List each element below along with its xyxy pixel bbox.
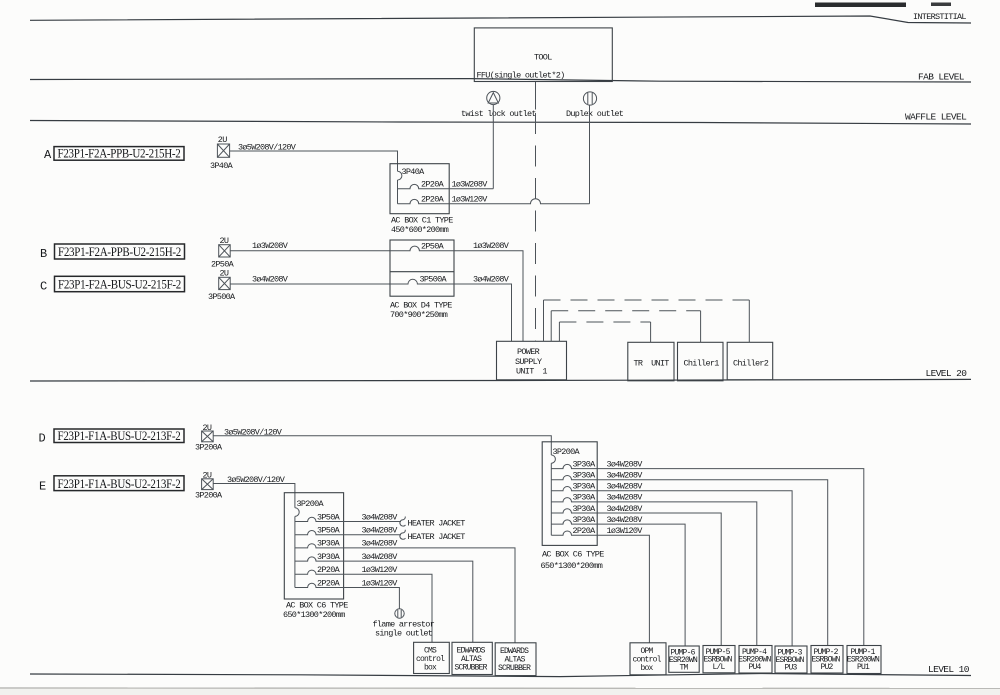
svg-text:SUPPLY: SUPPLY	[515, 357, 542, 367]
PUMP-6 ESR20WN TM	[669, 646, 699, 672]
svg-text:3P40A: 3P40A	[210, 161, 234, 171]
breaker 3P30A row2	[551, 475, 597, 479]
svg-text:3ø4W208V: 3ø4W208V	[607, 459, 644, 469]
svg-text:PU1: PU1	[857, 663, 870, 672]
svg-text:E: E	[39, 480, 46, 494]
svg-text:SCRUBBER: SCRUBBER	[498, 664, 531, 673]
wire 3ø4W208V to PUMP-5	[597, 513, 721, 646]
wire 3ø4W208V to heater jacket 1	[344, 521, 401, 523]
wire feeder C to AC BOX D4	[230, 283, 390, 285]
breaker 2P50A (AC box D4)	[390, 246, 454, 251]
svg-text:2P20A: 2P20A	[573, 526, 597, 536]
svg-text:3ø4W208V: 3ø4W208V	[607, 482, 644, 492]
svg-text:PU2: PU2	[821, 663, 834, 672]
wire feeder B to AC BOX D4	[230, 250, 390, 252]
svg-text:POWER: POWER	[517, 347, 540, 357]
svg-text:2P20A: 2P20A	[421, 179, 445, 189]
breaker 2P20A row7	[551, 531, 597, 535]
svg-text:SCRUBBER: SCRUBBER	[455, 663, 488, 672]
wire twist-lock outlet drop to AC box C1 row1	[492, 105, 494, 189]
svg-text:TR UNIT: TR UNIT	[634, 358, 670, 368]
svg-text:3P40A: 3P40A	[402, 167, 426, 177]
svg-text:3ø4W208V: 3ø4W208V	[252, 274, 289, 284]
level line INTERSTITIAL	[30, 16, 971, 23]
Duplex outlet symbol	[583, 92, 596, 105]
breaker 2P20A row5	[295, 570, 344, 574]
svg-text:TOOL: TOOL	[534, 53, 552, 63]
wire TOOL feeder dashed drop to POWER SUPPLY UNIT 1	[535, 113, 537, 341]
svg-text:WAFFLE LEVEL: WAFFLE LEVEL	[905, 111, 967, 122]
feeder tag B	[55, 244, 185, 259]
breaker 3P500A (feeder C disconnect)	[219, 277, 231, 289]
svg-text:LEVEL 20: LEVEL 20	[926, 368, 968, 379]
twist lock outlet symbol	[487, 91, 500, 104]
svg-text:3P30A: 3P30A	[573, 471, 597, 481]
wire PSU to TR UNIT (dashed)	[558, 322, 560, 341]
connector squiggle heater jacket 1	[400, 517, 406, 527]
svg-text:TM: TM	[680, 664, 689, 673]
svg-text:3ø4W208V: 3ø4W208V	[607, 504, 644, 514]
wire 3ø4W208V to EDWARDS scrubber 1	[344, 561, 473, 642]
PUMP-4 ESR200WN PU4	[739, 646, 772, 674]
AC BOX C6 right	[542, 442, 597, 546]
svg-text:2P20A: 2P20A	[421, 194, 445, 204]
svg-text:3ø4W208V: 3ø4W208V	[607, 493, 644, 503]
wire 1ø3W120V to flame arrestor outlet	[344, 588, 400, 609]
svg-text:1ø3W208V: 1ø3W208V	[252, 241, 289, 251]
svg-text:3P30A: 3P30A	[573, 504, 597, 514]
level line FAB LEVEL	[30, 79, 971, 82]
svg-text:650*1300*200mm: 650*1300*200mm	[283, 610, 345, 620]
svg-text:700*900*250mm: 700*900*250mm	[390, 310, 448, 320]
breaker 3P200A (feeder D disconnect)	[202, 431, 214, 442]
svg-text:1ø3W208V: 1ø3W208V	[473, 241, 510, 251]
svg-text:box: box	[641, 664, 654, 673]
PUMP-3 ESRBOWN PU3	[775, 646, 807, 673]
svg-text:3ø4W208V: 3ø4W208V	[362, 552, 399, 562]
bus AC box C1	[397, 180, 399, 204]
svg-text:Duplex outlet: Duplex outlet	[566, 109, 624, 119]
svg-text:C: C	[40, 280, 47, 294]
feeder tag E	[54, 476, 184, 491]
svg-text:FAB LEVEL: FAB LEVEL	[918, 72, 965, 83]
svg-text:box: box	[424, 663, 437, 672]
svg-text:1ø3W120V: 1ø3W120V	[607, 526, 644, 536]
svg-text:3P30A: 3P30A	[317, 552, 341, 562]
svg-text:single outlet: single outlet	[375, 629, 433, 639]
svg-text:2P20A: 2P20A	[317, 578, 341, 588]
svg-text:LEVEL 10: LEVEL 10	[928, 664, 970, 675]
bus left C6	[294, 516, 296, 587]
TOOL box	[474, 28, 612, 82]
breaker 2P50A (feeder B disconnect)	[219, 245, 231, 257]
svg-text:1ø3W120V: 1ø3W120V	[452, 194, 489, 204]
svg-text:2U: 2U	[203, 423, 212, 433]
svg-text:2U: 2U	[220, 236, 229, 246]
svg-text:F23P1-F2A-PPB-U2-215H-2: F23P1-F2A-PPB-U2-215H-2	[58, 146, 181, 161]
wire 1ø3W120V to Duplex outlet (hop over dashed feeder)	[449, 199, 589, 204]
svg-text:1ø3W120V: 1ø3W120V	[362, 565, 399, 575]
wire feeder A to AC BOX C1	[230, 151, 398, 171]
svg-text:3P200A: 3P200A	[195, 491, 223, 501]
breaker 3P30A row4	[295, 557, 344, 561]
svg-text:3ø4W208V: 3ø4W208V	[362, 539, 399, 549]
svg-text:L/L: L/L	[713, 663, 726, 672]
svg-text:HEATER JACKET: HEATER JACKET	[408, 519, 466, 529]
svg-text:650*1300*200mm: 650*1300*200mm	[541, 561, 603, 571]
feeder tag A	[54, 147, 184, 161]
svg-text:2U: 2U	[218, 135, 227, 145]
svg-text:AC BOX C6 TYPE: AC BOX C6 TYPE	[286, 601, 348, 611]
CMS control box	[414, 642, 450, 673]
breaker 3P30A row3	[295, 544, 344, 548]
scan edge faint line bottom	[0, 687, 1000, 690]
level line LEVEL 20	[30, 379, 971, 381]
breaker 3P200A main (right C6)	[551, 455, 555, 463]
svg-text:3P30A: 3P30A	[317, 539, 341, 549]
svg-text:3ø4W208V: 3ø4W208V	[473, 274, 510, 284]
svg-text:450*600*200mm: 450*600*200mm	[391, 225, 449, 235]
wire 3ø4W208V to PUMP-6	[597, 524, 685, 646]
svg-text:PU3: PU3	[785, 664, 798, 673]
Chiller2	[727, 342, 773, 380]
svg-text:AC BOX D4 TYPE: AC BOX D4 TYPE	[390, 301, 452, 311]
OPM control box	[630, 643, 666, 675]
svg-text:3ø4W208V: 3ø4W208V	[362, 512, 399, 522]
wire 3ø4W208V to PSU	[454, 284, 512, 341]
wire 3ø4W208V to PUMP-4	[597, 502, 757, 646]
breaker 3P50A row1	[295, 517, 344, 521]
svg-text:3P30A: 3P30A	[573, 482, 597, 492]
svg-text:3P200A: 3P200A	[195, 443, 223, 453]
svg-text:F23P1-F2A-PPB-U2-215H-2: F23P1-F2A-PPB-U2-215H-2	[58, 244, 181, 259]
svg-text:3P50A: 3P50A	[317, 512, 341, 522]
wire 3ø4W208V to PUMP-1	[597, 469, 864, 646]
svg-text:3P30A: 3P30A	[573, 515, 597, 525]
Chiller1	[678, 342, 724, 381]
POWER SUPPLY UNIT 1	[497, 341, 567, 380]
svg-text:3ø4W208V: 3ø4W208V	[362, 526, 399, 536]
PUMP-5 ESRBOWN L/L	[703, 646, 735, 673]
wire 1ø3W208V to PSU	[454, 251, 523, 341]
PUMP-1 ESR200WN PU1	[847, 646, 881, 674]
wire 1ø3W120V to CMS control box	[344, 574, 432, 642]
level line WAFFLE LEVEL	[30, 121, 971, 125]
svg-text:1ø3W208V: 1ø3W208V	[452, 179, 489, 189]
breaker 2P20A row2	[398, 199, 450, 203]
svg-text:3ø5W208V/120V: 3ø5W208V/120V	[224, 427, 283, 437]
breaker 3P200A main (left C6)	[295, 508, 299, 517]
feeder tag D	[54, 429, 184, 443]
breaker 3P30A row5	[551, 509, 597, 513]
wire Duplex outlet drop to AC box C1 row2	[589, 105, 591, 204]
svg-text:3P30A: 3P30A	[573, 459, 597, 469]
svg-text:AC BOX C6 TYPE: AC BOX C6 TYPE	[542, 550, 604, 560]
AC BOX C6 left	[284, 493, 343, 599]
scan artifact top-right dark streaks	[815, 3, 906, 8]
svg-text:3ø4W208V: 3ø4W208V	[607, 515, 644, 525]
svg-text:3P200A: 3P200A	[297, 499, 325, 509]
wire 3ø4W208V to PUMP-3	[597, 491, 792, 646]
EDWARDS ALTAS SCRUBBER 1	[452, 642, 492, 674]
svg-text:3P50A: 3P50A	[317, 526, 341, 536]
svg-text:3ø4W208V: 3ø4W208V	[607, 471, 644, 481]
TR UNIT	[628, 342, 674, 381]
svg-text:F23P1-F1A-BUS-U2-213F-2: F23P1-F1A-BUS-U2-213F-2	[58, 428, 181, 443]
wire PSU to Chiller2 (dashed)	[543, 300, 545, 341]
svg-text:UNIT 1: UNIT 1	[516, 367, 547, 377]
wire 3ø4W208V to EDWARDS scrubber 2	[344, 548, 515, 643]
svg-text:F23P1-F1A-BUS-U2-213F-2: F23P1-F1A-BUS-U2-213F-2	[58, 476, 181, 491]
breaker 3P30A row4	[551, 498, 597, 502]
svg-text:3P200A: 3P200A	[553, 447, 581, 457]
wire 3ø4W208V to PUMP-2	[597, 480, 828, 646]
wire 3ø4W208V to heater jacket 2	[344, 534, 401, 536]
wire TOOL feeder (solid stub below TOOL box)	[535, 82, 537, 110]
PUMP-2 ESRBOWN PU2	[811, 646, 843, 674]
svg-text:3P30A: 3P30A	[573, 493, 597, 503]
wire feeder E to AC BOX C6 left	[213, 484, 295, 508]
svg-text:PU4: PU4	[749, 663, 762, 672]
wire 1ø3W120V to OPM control box	[597, 535, 649, 643]
wire PSU to Chiller1 (dashed)	[550, 311, 552, 342]
breaker 3P40A main (AC box C1)	[398, 171, 402, 180]
breaker 3P50A row2	[295, 531, 344, 535]
svg-text:D: D	[39, 432, 46, 446]
breaker 2P20A row1	[398, 184, 450, 188]
breaker 3P30A row3	[551, 487, 597, 491]
svg-text:F23P1-F2A-BUS-U2-215F-2: F23P1-F2A-BUS-U2-215F-2	[58, 277, 181, 292]
wire feeder D to AC BOX C6 right	[213, 436, 551, 455]
svg-text:2P50A: 2P50A	[421, 242, 445, 252]
breaker 3P40A (feeder A disconnect)	[217, 144, 229, 157]
EDWARDS ALTAS SCRUBBER 2	[495, 643, 536, 676]
wire 1ø3W208V to twist lock outlet	[449, 188, 493, 190]
svg-text:3ø5W208V/120V: 3ø5W208V/120V	[238, 143, 297, 153]
svg-text:2U: 2U	[220, 269, 229, 279]
svg-text:twist lock outlet: twist lock outlet	[461, 109, 536, 119]
svg-text:Chiller1: Chiller1	[684, 358, 720, 368]
flame arrestor single outlet symbol	[395, 609, 404, 618]
svg-text:B: B	[40, 247, 47, 261]
AC BOX D4	[390, 240, 454, 296]
svg-text:3P500A: 3P500A	[208, 292, 236, 302]
svg-text:INTERSTITIAL: INTERSTITIAL	[913, 12, 966, 22]
breaker 3P200A (feeder E disconnect)	[202, 479, 214, 490]
svg-text:3ø5W208V/120V: 3ø5W208V/120V	[227, 475, 286, 485]
breaker 3P30A row1	[551, 464, 597, 468]
connector squiggle heater jacket 2	[400, 530, 406, 540]
AC BOX C1	[390, 164, 449, 214]
svg-text:2P20A: 2P20A	[317, 565, 341, 575]
svg-text:2U: 2U	[203, 471, 212, 481]
breaker 3P30A row6	[551, 520, 597, 524]
breaker 2P20A row6	[295, 583, 344, 587]
svg-text:3P500A: 3P500A	[420, 275, 448, 285]
level line LEVEL 10	[30, 674, 971, 677]
svg-text:FFU(single outlet*2): FFU(single outlet*2)	[477, 71, 565, 81]
feeder tag C	[55, 276, 185, 291]
svg-text:1ø3W120V: 1ø3W120V	[362, 578, 399, 588]
svg-text:HEATER JACKET: HEATER JACKET	[408, 532, 466, 542]
breaker 3P500A (AC box D4)	[390, 279, 454, 284]
bus right C6	[550, 463, 552, 535]
svg-text:Chiller2: Chiller2	[733, 358, 769, 368]
